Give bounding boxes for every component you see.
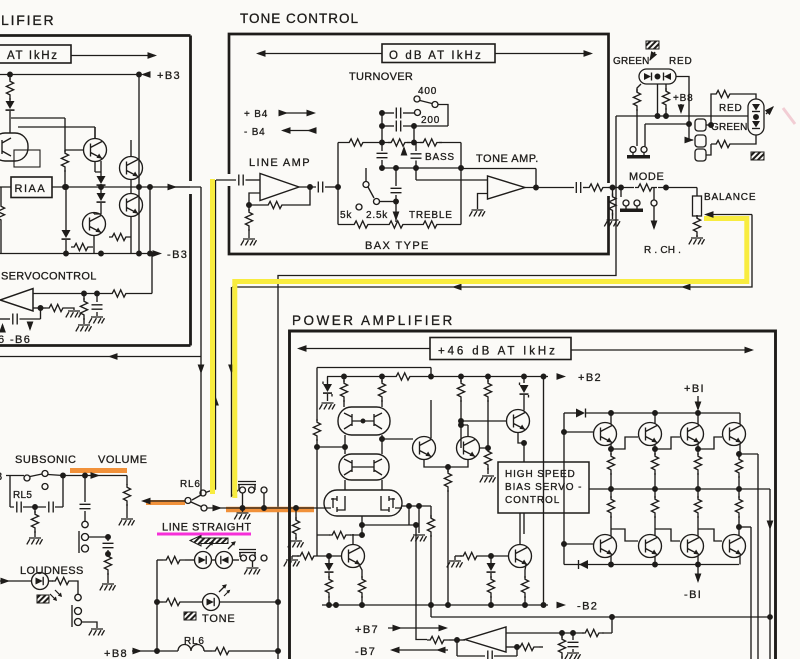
wire arrow from gain box [71,55,155,57]
indicator rail [616,115,748,117]
svg-text:R . CH .: R . CH . [644,245,681,256]
svg-text:VOLUME: VOLUME [98,454,147,466]
svg-text:LIFIER: LIFIER [1,12,55,28]
wire mid node [382,167,461,169]
base jog Q9 [655,437,680,449]
transistor Q-p12 [639,535,662,558]
highlight orange volume [70,468,127,473]
feedback vertical [750,527,752,659]
svg-text:BIAS SERVO -: BIAS SERVO - [505,482,582,493]
resistor R-t3 [420,139,442,146]
left contact pair [630,147,636,153]
wire to volume [63,475,127,477]
diode D-a3 [100,186,102,193]
ground g-p1 [319,403,335,409]
long output wire lower [431,616,770,618]
svg-text:LOUDNESS: LOUDNESS [20,565,84,577]
rays leds [206,541,214,549]
Q10 emitter branch [739,444,758,659]
upper drive column [563,413,565,565]
resistor R-p9 [292,555,299,557]
ground g-p6 [447,561,463,567]
diode D-p4 [579,560,588,569]
bax left rail [337,143,339,225]
svg-text:+ B4: + B4 [244,109,268,120]
output to right [769,489,771,659]
diode D-p3 [564,412,576,414]
output LED package [748,99,764,135]
resistor R-t5 [386,221,408,228]
op-amp U-p1 [465,627,506,652]
capacitor C-t6 input [216,179,236,181]
mid led leg [657,84,659,116]
resistor R-a2 [61,150,68,172]
highlight magenta line straight [157,533,251,536]
diode D-p6 [490,556,492,563]
arrow R.CH down [653,206,655,228]
0dB label box [382,44,495,63]
zener D-p2 [523,377,525,384]
resistor R-t10 [610,185,615,190]
contact box 2 [695,135,706,147]
svg-text:+B3: +B3 [157,70,181,82]
second rail [645,123,689,125]
-B2 rail [322,604,548,606]
svg-text:BAX TYPE: BAX TYPE [365,240,430,252]
FET pair Q-p3 [324,490,402,516]
svg-text:RL5: RL5 [13,490,32,501]
red resistor loop [711,94,713,125]
subsonic input wire [6,475,24,477]
power box border [290,331,776,659]
resistor R-p17 [515,645,520,650]
ground g-p2 [288,541,304,547]
svg-text:-B2: -B2 [577,601,598,613]
left vertical [156,560,158,651]
LED tone [203,594,220,611]
FET source wires [402,505,431,507]
-B1 feed [697,565,699,582]
dual transistor Q-a1 [0,133,28,161]
bottom rail [564,564,739,566]
diode D-a1 [6,101,15,111]
switch RL5 [24,475,30,481]
wire into tone control (line straight feed) [206,180,216,493]
resistor R-p16 [561,633,563,638]
x431 column with resistor [430,506,432,518]
ground g-m1 [689,238,705,244]
transistor Q-a5 [83,213,106,236]
wire collector feed [18,127,95,138]
ground g-b2 [119,519,135,525]
ground g-b1 [27,538,43,544]
transistor Q-p5 [457,437,480,460]
svg-text:MODE: MODE [629,171,664,183]
resistor R-m2 [696,216,698,218]
ground jack2 [82,622,98,628]
svg-text:LINE STRAIGHT: LINE STRAIGHT [162,522,252,534]
relay contact group 2 [239,550,256,558]
top inner rail [317,368,431,377]
treble switch [365,168,367,182]
resistor R-p11 [358,576,365,598]
resistor R-p1 on rail [393,373,415,380]
tone box border [229,34,609,254]
hatched arrow [190,536,228,547]
output node rail [589,488,770,490]
tone led row [157,601,163,603]
svg-text:+B8: +B8 [673,93,693,104]
svg-text:GREEN: GREEN [711,122,748,133]
hatch box tone [184,612,196,620]
capacitor C-b1 [107,537,109,541]
svg-text:TONE: TONE [202,613,236,625]
svg-text:- B4: - B4 [244,127,266,138]
svg-text:+BI: +BI [684,383,705,395]
wire left channel down [278,116,616,659]
svg-text:SERVOCONTROL: SERVOCONTROL [1,271,97,283]
collector wire w resistor [317,525,362,535]
top output rail [605,412,740,414]
capacitor C-t3 [381,143,383,152]
ground leg g-p3 [418,506,420,533]
svg-text:-B3: -B3 [167,249,188,261]
resistor R-t2 (bass pot) [388,139,410,146]
svg-text:+B2: +B2 [578,372,602,384]
Q-p6 emitter to servo box [518,433,524,463]
wire RIAA output [0,186,190,188]
subsonic caps [10,476,14,508]
ground g-a3 [66,311,82,317]
capacitor C-t8 [576,182,580,193]
dual transistor Q-p2 [339,454,389,480]
resistor R-p12 [455,555,462,557]
gain label box [0,45,71,63]
hatch box top [646,41,659,49]
svg-text:CONTROL: CONTROL [505,495,560,506]
resistor R-p6 [447,467,449,472]
emitter resistors bottom [610,489,612,498]
svg-text:SUBSONIC: SUBSONIC [15,454,76,466]
wire R channel from balance [232,215,752,288]
svg-text:RED: RED [669,56,693,67]
dual LED package [639,69,676,84]
feedback box [14,150,40,167]
transistor Q-p13 [681,535,704,558]
svg-text:TONE CONTROL: TONE CONTROL [240,11,359,26]
lightning output led [766,107,773,114]
arrows 46dB [299,348,430,350]
resistor R-t9 [586,184,608,191]
resistor R-a1 [9,75,11,81]
highlight orange wiper [146,500,185,505]
resistor R-b1 [34,507,36,513]
svg-text:+B7: +B7 [355,624,379,636]
wire to filter [89,536,109,538]
capacitor C-a1 [96,294,98,303]
svg-text:6 -B6: 6 -B6 [0,334,31,346]
bass top rail with resistors [338,142,461,144]
line straight leds wire [157,559,163,561]
relay contact group 1 [238,482,256,491]
resistor R-b4 [212,647,234,654]
svg-text:200: 200 [421,115,440,126]
resistor R-p4 [381,377,383,383]
resistor R-a4 [109,233,131,240]
wire from EQ box output down [172,187,201,500]
emitter resistors top [610,444,612,455]
arrows 0dB [258,53,382,55]
capacitor C-t7 [318,182,322,193]
x416 column [416,525,427,640]
treble bottom rail [338,224,461,226]
loudness input [0,580,31,582]
Q-p5 base column [460,377,462,383]
zener D-p1 [327,377,329,385]
transistor Q-p14 [723,535,746,558]
ground g-a2 [89,317,105,323]
transistor Q-p8 [639,423,662,446]
right edge pink smudge [783,108,795,124]
capacitor C-t5 [395,168,397,186]
resistor R-t4 [351,221,373,228]
switch RL6 [185,498,191,504]
transistor Q-p16 [509,545,532,568]
resistor R-p7 [487,377,489,383]
+B2 rail [327,376,548,378]
capacitor C-t2 [382,125,394,127]
resistor R-a7 [83,294,85,301]
RIAA box [11,177,52,198]
ground g-p5 [284,560,300,566]
resistor R-t1 [346,139,368,146]
mode row wire [618,187,697,189]
ground g-b3 [100,584,116,590]
transistor Q-p11 [594,535,617,558]
arrow B6 down [29,322,31,329]
diode D-a4 [65,187,67,230]
+46dB label box [430,338,571,360]
long mid column [543,377,545,606]
svg-text:HIGH SPEED: HIGH SPEED [505,469,576,480]
hatch box loudness [37,595,49,603]
balance wiper arrow [711,214,752,216]
transistor Q-p15 [342,545,365,568]
op-amp U-a1 [0,289,33,312]
svg-text:POWER AMPLIFIER: POWER AMPLIFIER [292,313,455,328]
wire to bias resistor [11,118,65,152]
jack pair 1 [78,531,80,553]
hatch box right [751,152,764,160]
column wire x139 [138,75,140,254]
transistor Q-a2 [84,139,107,162]
muting cap leg [84,476,86,503]
op-amp U-t1 [260,174,299,201]
svg-text:AT IkHz: AT IkHz [7,50,59,62]
resistor R-p10 [325,576,332,598]
loudness rays [50,594,57,601]
svg-text:2.5k: 2.5k [366,210,388,221]
rays tone led [219,584,227,592]
Q-p4 emitter [424,460,448,468]
resistor R-p2 [313,419,320,441]
LED ls2 [216,552,233,569]
svg-text:-B7: -B7 [355,646,376,658]
diode D-p5 [328,556,330,563]
svg-text:RL6: RL6 [180,479,201,490]
arrow B6 up [2,325,4,331]
resistor R-p15 [582,629,604,636]
tone amp output [525,187,574,189]
dual transistor Q-p1 [338,407,390,435]
resistor R-p13 [487,576,494,598]
transistor Q-a4 [120,194,143,217]
svg-text:TREBLE: TREBLE [409,210,453,221]
bass pot wiper arrow [403,148,405,153]
svg-text:GREEN: GREEN [613,56,650,67]
svg-text:8: 8 [0,471,4,483]
svg-text:RIAA: RIAA [15,183,47,195]
svg-text:-BI: -BI [684,589,702,601]
resistor R-t6 [420,221,442,228]
resistor R-p5 input [295,508,297,520]
line amp feedback [249,187,310,205]
left column [316,368,318,422]
bax right rail [460,143,462,225]
resistor R-t8 [248,205,250,211]
lightning to dual led [650,52,655,60]
volume wiper [146,500,185,502]
ground g-p4 [480,476,496,482]
resistor R-b3 [49,580,54,582]
green resistor loop bottom [706,144,713,155]
capacitor C-a2 [0,318,10,320]
diode D-a2 [100,161,102,176]
base jog Q10 [698,437,722,449]
wires between ovals [318,435,382,454]
green led resistor leg [637,84,641,92]
opamp input [427,636,449,643]
column wire x150 [149,187,151,254]
highlight yellow R-channel path [235,219,747,499]
resistor R-a8 [33,307,46,309]
ground g-t1 [241,239,257,245]
transistor Q-p10 [723,423,746,446]
feedback divider [539,617,612,633]
resistor +B8 [665,84,667,91]
servo box bottom lead [523,513,525,534]
long feedback wire to left [0,356,201,358]
op-amp U-t2 [488,176,526,199]
highlight orange to power amp [226,507,314,513]
resistor R-m1 [635,184,657,191]
resistor R-a6 [109,290,131,297]
resistor R-p8 [484,448,491,470]
opamp lower caps [457,640,485,656]
node +B3 [0,74,139,76]
HIGH SPEED BIAS SERVO CONTROL box [498,462,589,513]
svg-text:BASS: BASS [425,152,455,163]
svg-text:TURNOVER: TURNOVER [349,71,413,83]
svg-text:LINE AMP: LINE AMP [249,157,311,169]
transistor Q-a3 [120,157,143,180]
ground g-a1 [76,325,92,331]
relay coil RL6 [157,650,178,652]
base jog Q8 [611,437,638,449]
jack pair 2 [71,605,73,627]
right led leg [676,77,689,125]
treble wiper arrow down [393,212,400,222]
left box border [0,36,191,346]
mode switch [620,188,622,198]
switch turnover [414,96,420,102]
transistor Q-p9 [681,423,704,446]
tone amp gnd [478,194,488,210]
volume pot [126,476,128,486]
svg-text:TONE AMP.: TONE AMP. [476,153,539,165]
resistor R-p14 [521,576,528,598]
line amp output [299,186,316,188]
resistor R-b2 [104,553,111,575]
svg-text:BALANCE: BALANCE [704,192,756,203]
capacitor C-p1 [572,633,574,640]
resistor R-a5 [71,243,93,250]
FET drain links [345,480,382,490]
transistor Q-p7 [594,423,617,446]
highlight yellow input path [210,179,215,494]
resistor R-p3 [343,377,345,383]
resistor R-a3 at left edge [0,203,5,225]
tone amp input wire [416,168,488,180]
transistor Q-p4 [413,437,436,460]
svg-text:+B8: +B8 [104,648,128,659]
contact box 1 [695,119,706,131]
LED ls1 [195,552,212,569]
balance pot [696,188,698,197]
wire tone return down [232,287,239,496]
ground g-t2 [604,220,620,226]
tone amp feedback wire [461,169,536,188]
wire servo feedback [33,293,109,295]
contact box 3 [695,149,706,161]
capacitor C-t1 [382,112,394,114]
node -B3 [0,253,150,255]
svg-text:400: 400 [418,86,437,97]
svg-text:+46 dB AT IkHz: +46 dB AT IkHz [438,346,558,358]
transistor Q-p6 [507,410,530,433]
arrow B8 down [680,104,682,112]
svg-text:O dB AT IkHz: O dB AT IkHz [389,50,483,62]
resistor R-t7 [265,201,287,208]
arrow into contact [689,124,693,140]
svg-text:RED: RED [719,103,743,114]
opamp feedback wire [506,632,539,634]
capacitor C-t4 [415,143,417,152]
svg-text:5k: 5k [340,210,352,221]
input wire to FET [207,507,324,509]
LED loudness [32,573,49,590]
